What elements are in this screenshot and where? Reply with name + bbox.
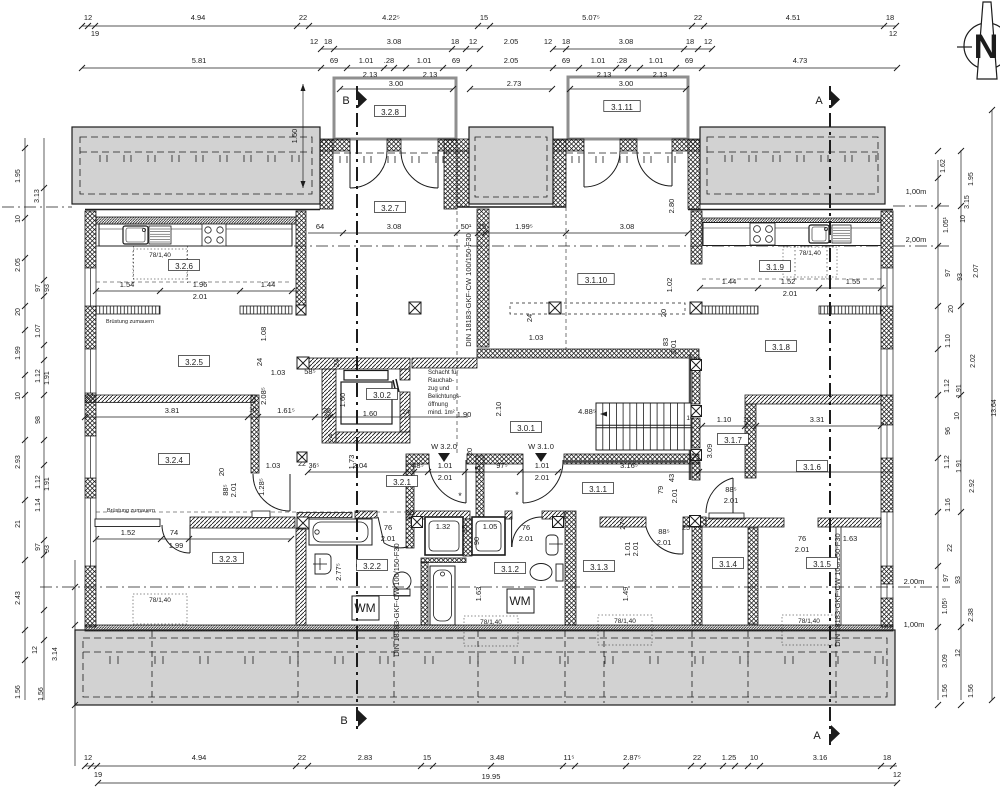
svg-text:1.01: 1.01: [359, 56, 374, 65]
svg-text:1.03: 1.03: [266, 461, 281, 470]
wall shower partition: [463, 519, 472, 556]
svg-text:1.54: 1.54: [120, 280, 135, 289]
svg-text:15: 15: [423, 753, 431, 762]
svg-text:48⁵: 48⁵: [412, 461, 423, 470]
roof area top-right: [700, 127, 885, 204]
svg-text:18: 18: [883, 753, 891, 762]
svg-text:78/1,40: 78/1,40: [149, 597, 171, 604]
roof dashes bottom band: [83, 638, 887, 697]
svg-text:1.02: 1.02: [665, 278, 674, 293]
svg-text:mind. 1m²: mind. 1m²: [428, 410, 455, 416]
dormer width dims: [337, 79, 456, 92]
svg-text:2.05: 2.05: [504, 37, 519, 46]
svg-text:5.81: 5.81: [192, 56, 207, 65]
svg-text:2.43: 2.43: [15, 591, 22, 605]
svg-text:69: 69: [562, 56, 570, 65]
svg-text:.28: .28: [617, 56, 627, 65]
wall 3.1.4/3.1.5: [748, 528, 758, 624]
svg-text:20: 20: [217, 468, 226, 476]
svg-text:2.01: 2.01: [535, 473, 550, 482]
svg-text:3.08: 3.08: [619, 37, 634, 46]
svg-text:12: 12: [84, 13, 92, 22]
elevator cab: [341, 382, 392, 424]
svg-text:1.16: 1.16: [945, 498, 952, 512]
dormer 3.1.10 double door: [584, 151, 672, 187]
door 3.2.2: [378, 517, 407, 548]
svg-text:2.83: 2.83: [358, 753, 373, 762]
right margin chains: [937, 160, 939, 700]
svg-text:69: 69: [330, 56, 338, 65]
dim row y537 left: [93, 528, 294, 550]
wall 3.1.9 left: [691, 211, 702, 264]
svg-text:20: 20: [15, 308, 22, 316]
svg-text:2.01: 2.01: [631, 542, 640, 557]
svg-text:2.02: 2.02: [970, 354, 977, 368]
svg-text:1.56: 1.56: [968, 684, 975, 698]
svg-text:3.08: 3.08: [387, 37, 402, 46]
svg-text:1.99: 1.99: [169, 541, 184, 550]
svg-text:22: 22: [693, 753, 701, 762]
wall continuation dashes in bottom band: [151, 631, 153, 703]
svg-text:4.94: 4.94: [192, 753, 207, 762]
svg-text:1.03: 1.03: [271, 368, 286, 377]
svg-text:97: 97: [943, 574, 950, 582]
svg-text:1.01: 1.01: [591, 56, 606, 65]
svg-text:3.1.10: 3.1.10: [585, 276, 608, 285]
door 3.1.3: [646, 527, 683, 554]
svg-text:Belichtungs-: Belichtungs-: [428, 394, 461, 400]
svg-text:Brüstung zumauern: Brüstung zumauern: [106, 319, 154, 325]
svg-text:3.1.11: 3.1.11: [611, 103, 633, 112]
svg-text:1.10: 1.10: [945, 334, 952, 348]
bottom dim row 2: [95, 772, 900, 786]
left wall windows: [85, 268, 96, 306]
svg-text:24: 24: [326, 434, 335, 442]
top eaves line: [85, 209, 320, 211]
svg-text:2.13: 2.13: [423, 70, 438, 79]
svg-text:1.56: 1.56: [942, 684, 949, 698]
svg-text:4.88⁵: 4.88⁵: [578, 407, 596, 416]
svg-text:A: A: [815, 95, 823, 107]
svg-text:3.0.2: 3.0.2: [373, 391, 391, 400]
wall 3.2.1 left partition: [406, 464, 414, 515]
svg-text:22: 22: [298, 753, 306, 762]
dormer 3.2.7 double door: [350, 151, 438, 188]
svg-text:12: 12: [310, 37, 318, 46]
shaft 3.0.2 bottom wall: [336, 432, 410, 443]
dormer box 3.1.11: [568, 77, 688, 139]
svg-text:3.1.5: 3.1.5: [813, 560, 831, 569]
kitchen 3.1.9 counter: [703, 223, 881, 246]
svg-text:2.01: 2.01: [783, 289, 798, 298]
svg-text:Brüstung zumauern: Brüstung zumauern: [107, 508, 155, 514]
svg-text:88⁵: 88⁵: [725, 485, 736, 494]
svg-text:2.01: 2.01: [381, 534, 396, 543]
svg-text:3.1.4: 3.1.4: [719, 560, 737, 569]
svg-text:2.13: 2.13: [653, 70, 668, 79]
svg-text:90: 90: [472, 537, 481, 545]
dashed verticals dormer edges: [456, 211, 458, 454]
svg-text:1.95: 1.95: [15, 169, 22, 183]
svg-text:2.00m: 2.00m: [904, 577, 925, 586]
svg-text:3.2.7: 3.2.7: [381, 204, 399, 213]
svg-text:1.03: 1.03: [529, 333, 544, 342]
svg-text:5.07⁵: 5.07⁵: [582, 13, 600, 22]
svg-text:3.2.6: 3.2.6: [175, 262, 193, 271]
bath walls band y515: [297, 513, 352, 518]
svg-text:1.07: 1.07: [35, 324, 42, 338]
svg-text:18: 18: [324, 37, 332, 46]
svg-text:1.90: 1.90: [457, 410, 472, 419]
svg-text:20: 20: [948, 305, 955, 313]
left exterior wall: [85, 211, 96, 268]
dormer 3.1.10 right wall: [688, 140, 700, 209]
wall 3.2.1/3.1.2 partition: [476, 456, 484, 519]
shaft 3.0.2 top wall: [297, 358, 410, 369]
kitchen 3.2.6 counter: [99, 224, 292, 246]
svg-text:2.01: 2.01: [657, 538, 672, 547]
svg-text:22: 22: [947, 544, 954, 552]
svg-text:12: 12: [84, 753, 92, 762]
svg-text:76: 76: [798, 534, 806, 543]
svg-text:93: 93: [957, 273, 964, 281]
svg-text:3.2.2: 3.2.2: [363, 562, 381, 571]
svg-text:2.07: 2.07: [973, 264, 980, 278]
svg-text:3.2.8: 3.2.8: [381, 108, 399, 117]
svg-text:12: 12: [889, 29, 897, 38]
svg-text:2.92: 2.92: [969, 479, 976, 493]
svg-text:78/1,40: 78/1,40: [480, 619, 502, 626]
svg-text:2.93: 2.93: [15, 455, 22, 469]
svg-text:3.81: 3.81: [165, 406, 180, 415]
top dim row 2 left: [310, 37, 483, 52]
dashed parapet 3.1.10: [510, 303, 685, 314]
svg-text:3.1.8: 3.1.8: [772, 343, 790, 352]
svg-text:2.05: 2.05: [504, 56, 519, 65]
wall 3.1.10 left / DIN partition: [477, 209, 489, 347]
dim row y470: [305, 461, 893, 482]
toilet 3.1.2: [556, 564, 563, 581]
svg-text:2.77⁵: 2.77⁵: [334, 563, 343, 581]
svg-text:3.08: 3.08: [620, 222, 635, 231]
svg-text:1.63: 1.63: [474, 587, 483, 602]
svg-text:93: 93: [44, 545, 51, 553]
height reference line 2.00m top: [96, 245, 881, 247]
svg-text:2.01: 2.01: [670, 489, 679, 504]
svg-text:3.08: 3.08: [387, 222, 402, 231]
washbasin 3.1.2: [546, 535, 558, 555]
svg-text:43: 43: [667, 474, 676, 482]
svg-text:18: 18: [886, 13, 894, 22]
svg-text:1.73: 1.73: [347, 455, 356, 470]
door 3.2.4/hall: [253, 474, 290, 511]
section line B: [356, 86, 358, 730]
svg-text:3.2.5: 3.2.5: [185, 358, 203, 367]
left margin chains: [24, 138, 26, 700]
svg-text:B: B: [340, 715, 347, 727]
svg-text:1.12: 1.12: [35, 369, 42, 383]
svg-text:12: 12: [32, 646, 39, 654]
dim row y424 right: [699, 415, 884, 429]
svg-text:1.12: 1.12: [944, 455, 951, 469]
svg-text:15: 15: [478, 222, 486, 231]
svg-text:4.73: 4.73: [793, 56, 808, 65]
right exterior wall: [881, 211, 893, 268]
svg-text:3.1.6: 3.1.6: [803, 463, 821, 472]
svg-text:27⁵: 27⁵: [618, 518, 627, 529]
dashed line y512: [96, 511, 406, 513]
svg-text:1.12: 1.12: [944, 379, 951, 393]
bottom dim row 1: [82, 753, 901, 779]
svg-text:2.13: 2.13: [597, 70, 612, 79]
svg-text:3.16⁵: 3.16⁵: [620, 461, 638, 470]
dormer 3.1.10 left wall: [553, 140, 566, 207]
door 3.1.2 top: [512, 517, 542, 547]
wall 3.1.8 left: [689, 354, 692, 480]
svg-text:1.56: 1.56: [38, 687, 45, 701]
svg-text:öffnung: öffnung: [428, 402, 448, 408]
svg-text:15: 15: [480, 13, 488, 22]
svg-text:10: 10: [15, 392, 22, 400]
roof area bottom band: [75, 630, 895, 705]
svg-text:1.56: 1.56: [15, 685, 22, 699]
svg-text:3.09: 3.09: [942, 654, 949, 668]
svg-text:36⁵: 36⁵: [309, 463, 320, 470]
wall 3.1.2/3.1.3: [565, 511, 576, 625]
svg-text:78/1,40: 78/1,40: [799, 250, 821, 257]
svg-text:10: 10: [15, 215, 22, 223]
dim row y230: [308, 222, 691, 236]
svg-text:1.91: 1.91: [44, 477, 51, 491]
svg-text:2.87⁵: 2.87⁵: [623, 753, 641, 762]
svg-text:1.05: 1.05: [483, 522, 498, 531]
svg-text:93: 93: [955, 576, 962, 584]
svg-text:76: 76: [384, 523, 392, 532]
section line A: [829, 86, 831, 745]
svg-text:4.51: 4.51: [786, 13, 801, 22]
svg-text:1.08: 1.08: [259, 327, 268, 342]
svg-text:1.95: 1.95: [968, 172, 975, 186]
svg-text:1.01: 1.01: [417, 56, 432, 65]
svg-text:2.05: 2.05: [15, 258, 22, 272]
wall corridor top: [477, 349, 699, 358]
svg-text:DIN 18183-GKF-CW 100/150-F30: DIN 18183-GKF-CW 100/150-F30: [833, 533, 842, 646]
svg-text:22: 22: [299, 13, 307, 22]
top dim row 2 right: [544, 37, 715, 52]
svg-text:3.48: 3.48: [490, 753, 505, 762]
svg-text:DIN 18183-GKF-CW 100/150-F30: DIN 18183-GKF-CW 100/150-F30: [464, 233, 473, 346]
roof dashes top-left: [80, 137, 312, 194]
svg-text:18: 18: [686, 37, 694, 46]
svg-text:20: 20: [465, 448, 474, 456]
svg-text:1.12: 1.12: [35, 475, 42, 489]
svg-text:B: B: [342, 95, 349, 107]
roof area top-left: [72, 127, 320, 204]
svg-text:2.01: 2.01: [669, 340, 678, 355]
svg-text:19: 19: [94, 770, 102, 779]
dormer 3.2.7 door post: [387, 139, 401, 151]
svg-text:3.14: 3.14: [52, 647, 59, 661]
svg-text:2.01: 2.01: [724, 496, 739, 505]
svg-text:3.1.1: 3.1.1: [589, 485, 607, 494]
svg-text:1.96: 1.96: [193, 280, 208, 289]
svg-text:1.28⁵: 1.28⁵: [257, 478, 266, 496]
svg-text:1.01: 1.01: [535, 461, 550, 470]
svg-text:*: *: [458, 491, 462, 501]
svg-text:WM: WM: [509, 594, 530, 608]
svg-text:2,00m: 2,00m: [906, 235, 927, 244]
washbasin 3.2.2: [315, 554, 331, 574]
svg-text:1.01: 1.01: [649, 56, 664, 65]
shaft 3.0.2 right wall: [400, 369, 410, 380]
svg-text:1.91: 1.91: [956, 459, 963, 473]
bottom exterior wall: [85, 625, 893, 631]
svg-text:1.62: 1.62: [940, 159, 947, 173]
door 3.1.7/3.1.6: [706, 478, 733, 515]
svg-text:13.64: 13.64: [991, 399, 998, 417]
dormer box 3.2.8: [334, 78, 456, 139]
svg-text:10: 10: [960, 215, 967, 223]
svg-text:21: 21: [15, 520, 22, 528]
svg-text:1.52: 1.52: [121, 528, 136, 537]
wall 3.2.5/3.2.4: [85, 395, 255, 403]
svg-text:2.01: 2.01: [519, 534, 534, 543]
svg-text:97: 97: [35, 284, 42, 292]
svg-text:10: 10: [743, 417, 751, 424]
svg-text:36: 36: [324, 413, 332, 420]
svg-text:2.38: 2.38: [968, 608, 975, 622]
svg-text:3.16: 3.16: [813, 753, 828, 762]
svg-text:25: 25: [682, 523, 690, 532]
svg-text:1.91: 1.91: [956, 384, 963, 398]
bathtub 3.1.2: [430, 566, 455, 625]
sink 3.1.9: [809, 225, 829, 243]
svg-text:1.55: 1.55: [846, 277, 861, 286]
toilet 3.2.2: [393, 572, 411, 590]
svg-text:4.22⁵: 4.22⁵: [382, 13, 400, 22]
stairs: [596, 403, 691, 450]
svg-text:1.05⁵: 1.05⁵: [942, 598, 949, 615]
svg-text:3.09: 3.09: [705, 444, 714, 459]
svg-text:10: 10: [686, 415, 694, 422]
svg-text:3.15: 3.15: [964, 195, 971, 209]
parapet dashed lines: [96, 281, 292, 283]
svg-text:2.01: 2.01: [438, 473, 453, 482]
svg-text:2.73: 2.73: [507, 79, 522, 88]
svg-text:97: 97: [945, 269, 952, 277]
svg-text:1,00m: 1,00m: [906, 187, 927, 196]
svg-text:1.91: 1.91: [44, 371, 51, 385]
roof dashes across dormer interiors: [333, 152, 457, 154]
roof dashes top-right: [707, 137, 878, 194]
north arrow: [964, 2, 1000, 79]
svg-text:10: 10: [750, 753, 758, 762]
dim row y290 right: [697, 277, 886, 298]
roof dashes top-middle: [475, 137, 547, 197]
svg-text:3.2.4: 3.2.4: [165, 456, 183, 465]
svg-text:1.01: 1.01: [438, 461, 453, 470]
svg-text:3.13: 3.13: [34, 189, 41, 203]
svg-text:64: 64: [316, 222, 324, 231]
svg-text:1.10: 1.10: [717, 415, 732, 424]
svg-text:2.01: 2.01: [795, 545, 810, 554]
svg-text:15: 15: [473, 466, 482, 474]
height reference line 2.00m bottom: [40, 586, 950, 588]
svg-text:11⁵: 11⁵: [564, 753, 575, 762]
svg-text:69: 69: [685, 56, 693, 65]
svg-text:3.1.9: 3.1.9: [766, 263, 784, 272]
dim row y415: [82, 406, 468, 420]
svg-text:93: 93: [44, 284, 51, 292]
svg-text:10: 10: [249, 407, 257, 414]
svg-text:24: 24: [332, 359, 341, 367]
shower 1.05: [472, 517, 505, 555]
svg-text:DIN 18183-GKF-CW 100/150-F30: DIN 18183-GKF-CW 100/150-F30: [392, 543, 401, 656]
svg-text:24: 24: [255, 358, 264, 366]
svg-text:10: 10: [954, 412, 961, 420]
svg-text:3.31: 3.31: [810, 415, 825, 424]
top knee wall right: [702, 218, 881, 223]
svg-text:zug und: zug und: [428, 386, 449, 392]
svg-text:1.49: 1.49: [621, 587, 630, 602]
svg-text:1.99: 1.99: [15, 346, 22, 360]
svg-text:1.50: 1.50: [290, 129, 299, 144]
svg-text:1.14: 1.14: [35, 498, 42, 512]
svg-text:3.00: 3.00: [619, 79, 634, 88]
door W 3.1.0: [523, 460, 563, 503]
svg-text:1.60: 1.60: [338, 393, 347, 408]
room labels: [375, 106, 406, 118]
dotted window projection lines kitchens: [134, 246, 828, 283]
svg-text:.28: .28: [384, 56, 394, 65]
svg-text:88⁵: 88⁵: [658, 527, 669, 536]
parapet stub walls y306: [96, 306, 160, 314]
svg-text:2.10: 2.10: [494, 402, 503, 417]
dormer 3.2.7 right wall: [444, 140, 457, 209]
right wall windows: [881, 268, 893, 306]
svg-text:3.1.7: 3.1.7: [724, 436, 742, 445]
WM 3.2.2: [352, 596, 379, 620]
svg-text:15: 15: [460, 525, 469, 533]
svg-text:1.61⁵: 1.61⁵: [277, 406, 295, 415]
svg-text:1.44: 1.44: [722, 277, 737, 286]
1.50 vdim: [290, 84, 303, 188]
wall under stairs / corridor bottom right: [564, 454, 699, 464]
wall 3.2.4/3.2.3: [95, 519, 160, 527]
svg-text:24: 24: [525, 314, 534, 322]
dormer 3.2.7 left wall: [320, 140, 333, 209]
svg-text:1.52: 1.52: [781, 277, 796, 286]
svg-text:76: 76: [522, 523, 530, 532]
svg-text:96: 96: [945, 427, 952, 435]
stove 3.1.9: [750, 223, 775, 245]
svg-text:3.1.3: 3.1.3: [590, 563, 608, 572]
wall 3.1.3/3.1.4: [692, 527, 702, 625]
sink 3.2.6: [123, 226, 148, 244]
svg-text:3.1.2: 3.1.2: [501, 565, 519, 574]
svg-text:22: 22: [694, 13, 702, 22]
svg-text:3.2.3: 3.2.3: [219, 555, 237, 564]
svg-text:1.60: 1.60: [363, 409, 378, 418]
svg-text:4.94: 4.94: [191, 13, 206, 22]
door 3.2.3: [162, 525, 190, 553]
svg-text:*: *: [515, 490, 519, 500]
top dim row 3: [79, 37, 900, 71]
height reference line top outside stubs: [2, 206, 72, 208]
svg-text:69: 69: [452, 56, 460, 65]
light partition 3.1.5: [836, 527, 841, 625]
svg-text:78/1,40: 78/1,40: [798, 618, 820, 625]
